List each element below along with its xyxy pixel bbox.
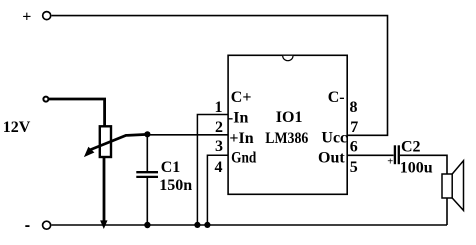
- svg-text:5: 5: [350, 159, 358, 176]
- capacitor C2 plates: [395, 145, 399, 164]
- svg-text:6: 6: [350, 139, 358, 156]
- svg-text:4: 4: [215, 159, 223, 176]
- svg-text:3: 3: [215, 138, 223, 155]
- svg-text:Out: Out: [318, 149, 345, 166]
- wire speaker bottom to ground rail: [446, 198, 448, 225]
- svg-text:+In: +In: [229, 130, 253, 147]
- capacitor C1 top lead: [146, 134, 148, 171]
- terminal + (positive supply): [22, 9, 51, 26]
- wire potentiometer bottom to ground rail (thick): [103, 158, 106, 223]
- op-amp U1 LM386 body: [228, 55, 347, 194]
- svg-text:+: +: [22, 9, 31, 26]
- speaker LS1 body: [442, 161, 464, 211]
- node wiper junction: [144, 131, 150, 137]
- svg-text:C-: C-: [328, 89, 345, 106]
- svg-text:2: 2: [215, 119, 223, 136]
- wire bottom rail (ground): [52, 224, 448, 226]
- svg-text:1: 1: [215, 99, 223, 116]
- IC notch: [283, 56, 293, 61]
- terminal - (negative supply): [25, 221, 50, 229]
- capacitor C1 plates: [136, 172, 158, 177]
- potentiometer P1 body: [100, 126, 111, 157]
- wire pin 6 (Out) to capacitor C2: [347, 154, 393, 156]
- wire pin 3 (Gnd) to ground rail: [207, 155, 227, 225]
- arrowhead at ground rail: [100, 220, 107, 229]
- svg-text:Gnd: Gnd: [231, 149, 256, 166]
- svg-text:LM386: LM386: [265, 130, 308, 147]
- svg-text:12V: 12V: [3, 119, 31, 136]
- terminal 12V feed: [43, 97, 48, 102]
- wire capacitor C2 to speaker: [400, 155, 447, 174]
- capacitor C1 bottom lead: [146, 178, 148, 225]
- wire wiper junction to pin 2 (+In): [147, 134, 227, 136]
- svg-text:IO1: IO1: [276, 109, 303, 126]
- svg-text:C2: C2: [401, 138, 421, 155]
- svg-text:Ucc: Ucc: [321, 129, 347, 146]
- svg-text:-In: -In: [228, 110, 249, 127]
- wire pin 1 (-In) to ground rail: [197, 115, 227, 226]
- svg-text:150n: 150n: [159, 177, 192, 194]
- svg-text:100u: 100u: [400, 159, 433, 176]
- wire top rail from + terminal to pin 7 (Ucc): [52, 16, 388, 136]
- svg-text:C+: C+: [231, 89, 252, 106]
- node pin 3 ground junction: [204, 222, 210, 228]
- node C1 ground junction: [144, 222, 150, 228]
- svg-text:7: 7: [350, 119, 358, 136]
- svg-text:C1: C1: [161, 159, 181, 176]
- svg-text:+: +: [387, 157, 393, 168]
- node pin 1 ground junction: [194, 222, 200, 228]
- potentiometer wiper arrow: [84, 134, 147, 157]
- wire 12V feed to potentiometer top (thick): [48, 99, 104, 126]
- svg-text:8: 8: [350, 99, 358, 116]
